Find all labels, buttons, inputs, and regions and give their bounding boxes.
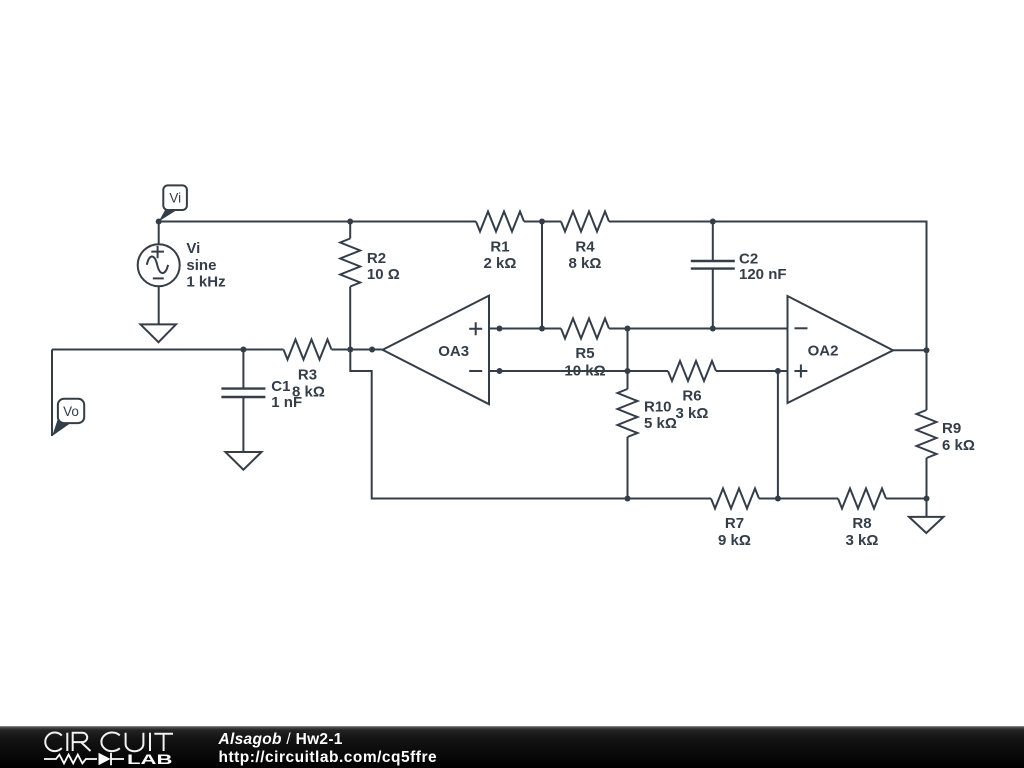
- svg-text:1 nF: 1 nF: [271, 394, 302, 411]
- resistor R1: [476, 212, 524, 232]
- wire R2 top lead: [349, 222, 351, 239]
- svg-text:R1: R1: [490, 239, 509, 256]
- label R2: [367, 250, 400, 283]
- label Vi source: [186, 240, 225, 290]
- label C2: [739, 251, 787, 284]
- op-amp OA2 (facing right): [788, 296, 894, 403]
- svg-text:R5: R5: [575, 345, 594, 362]
- wire R7 to R8: [759, 498, 838, 500]
- label R5 value (under wire): [564, 363, 605, 380]
- node top rail at C2: [710, 219, 716, 225]
- wire OA2 output node down to R9: [926, 350, 928, 410]
- voltage source Vi (sine): [138, 244, 180, 286]
- wire R10 bottom lead: [627, 437, 629, 499]
- capacitor C2: [691, 222, 735, 329]
- svg-text:Vo: Vo: [63, 404, 79, 419]
- wire top rail left: [159, 221, 476, 223]
- resistor R10: [618, 389, 638, 437]
- node top rail at R2: [347, 219, 353, 225]
- wire R2 bottom lead: [349, 287, 351, 350]
- svg-text:R3: R3: [298, 367, 317, 384]
- wire OA3 plus input to R5: [489, 328, 561, 330]
- wire R3 to OA3 output: [332, 349, 383, 351]
- svg-text:R2: R2: [367, 250, 386, 267]
- svg-text:Vi: Vi: [186, 240, 200, 257]
- svg-text:R4: R4: [575, 239, 595, 256]
- svg-text:8 kΩ: 8 kΩ: [569, 255, 602, 272]
- svg-text:LAB: LAB: [127, 751, 173, 767]
- svg-text:3 kΩ: 3 kΩ: [846, 532, 879, 549]
- resistor R6: [668, 361, 716, 381]
- svg-text:R10: R10: [644, 399, 672, 416]
- label R6: [676, 388, 709, 422]
- svg-text:OA2: OA2: [808, 343, 839, 360]
- node Vi source top: [156, 219, 162, 225]
- node R5/R10 junction: [625, 326, 631, 332]
- resistor R9: [917, 410, 937, 458]
- resistor R7: [711, 489, 759, 509]
- node R10 bottom junction: [625, 496, 631, 502]
- wire R8 to ground node: [886, 498, 927, 500]
- label C1: [271, 378, 302, 411]
- resistor R5: [561, 319, 609, 339]
- node OA3 minus pin: [497, 368, 503, 374]
- svg-text:10 Ω: 10 Ω: [367, 266, 400, 283]
- wire R5 junction down to minus wire: [627, 329, 629, 372]
- label R4: [569, 239, 602, 272]
- label R5 name: [575, 345, 594, 362]
- svg-text:sine: sine: [186, 257, 216, 274]
- label R7: [718, 515, 751, 549]
- svg-text:120 nF: 120 nF: [739, 266, 787, 283]
- wire Vi node to source: [158, 222, 160, 245]
- logo CIRCUIT: [45, 733, 173, 752]
- capacitor C1: [221, 350, 265, 452]
- svg-text:R7: R7: [725, 515, 744, 532]
- wire OA2 output: [893, 349, 926, 351]
- resistor R8: [838, 489, 886, 509]
- svg-text:R8: R8: [852, 515, 871, 532]
- wire R6 to OA2 plus input: [716, 370, 788, 372]
- ground (C1): [225, 452, 261, 470]
- wire ground lead bottom right: [926, 499, 928, 517]
- node OA3 plus pin: [497, 326, 503, 332]
- svg-text:9 kΩ: 9 kΩ: [718, 532, 751, 549]
- node OA2 output junction: [924, 347, 930, 353]
- resistor R2: [340, 239, 360, 287]
- logo resistor-diode glyph: [44, 753, 124, 765]
- wire feedback from output node down to bottom rail: [350, 350, 711, 499]
- wire source to ground: [158, 286, 160, 324]
- svg-text:http://circuitlab.com/cq5ffre: http://circuitlab.com/cq5ffre: [219, 749, 438, 766]
- svg-text:Alsagob / Hw2-1: Alsagob / Hw2-1: [218, 731, 343, 748]
- wire R9 bottom lead: [926, 458, 928, 499]
- node R8/R9/ground junction: [924, 496, 930, 502]
- node R2/R3 junction: [347, 347, 353, 353]
- node top rail R1-R4 junction: [539, 219, 545, 225]
- svg-text:C2: C2: [739, 251, 758, 268]
- svg-text:1 kHz: 1 kHz: [186, 273, 225, 290]
- svg-text:5 kΩ: 5 kΩ: [644, 415, 677, 432]
- node C1 top: [240, 347, 246, 353]
- svg-text:C1: C1: [271, 378, 290, 395]
- label R10: [644, 399, 677, 433]
- ground (bottom right): [909, 517, 944, 533]
- wire between R1 and R4: [524, 221, 561, 223]
- ground (source): [141, 324, 177, 342]
- wire OA3 minus input: [489, 370, 628, 372]
- flag Vi: [159, 185, 187, 221]
- wire R6 left lead: [628, 370, 669, 372]
- svg-text:R6: R6: [682, 388, 701, 405]
- label R8: [846, 515, 879, 549]
- op-amp OA3 (facing left): [383, 296, 490, 405]
- wire R5 to OA2 minus input: [609, 328, 788, 330]
- svg-text:3 kΩ: 3 kΩ: [676, 405, 709, 422]
- node OA3 output pin: [369, 347, 375, 353]
- wire output of OA3 (main mid rail): [52, 349, 284, 351]
- footer bar: [0, 726, 1024, 768]
- wire plus node down to bottom rail: [777, 371, 779, 499]
- node R6 left junction: [625, 368, 631, 374]
- svg-text:6 kΩ: 6 kΩ: [942, 437, 975, 454]
- node plus-wire/R1R4 junction: [539, 326, 545, 332]
- label R1: [484, 239, 517, 272]
- svg-text:Vi: Vi: [169, 191, 181, 206]
- resistor R3: [284, 340, 332, 360]
- svg-text:2 kΩ: 2 kΩ: [484, 255, 517, 272]
- node R7/R8 junction: [775, 496, 781, 502]
- wire left corner down to Vo flag: [51, 350, 53, 437]
- node C2/minus-wire junction: [710, 326, 716, 332]
- resistor R4: [561, 212, 609, 232]
- wire top rail right with corner down to OA2 output: [609, 222, 927, 351]
- svg-text:R9: R9: [942, 420, 961, 437]
- wire R1/R4 junction down to OA3 plus wire: [541, 222, 543, 329]
- label R9: [942, 420, 975, 454]
- node R6/OA2-plus/vertical junction: [775, 368, 781, 374]
- flag Vo: [52, 399, 84, 436]
- wire down to R10: [627, 371, 629, 389]
- label R3: [292, 367, 325, 401]
- svg-text:OA3: OA3: [438, 343, 469, 360]
